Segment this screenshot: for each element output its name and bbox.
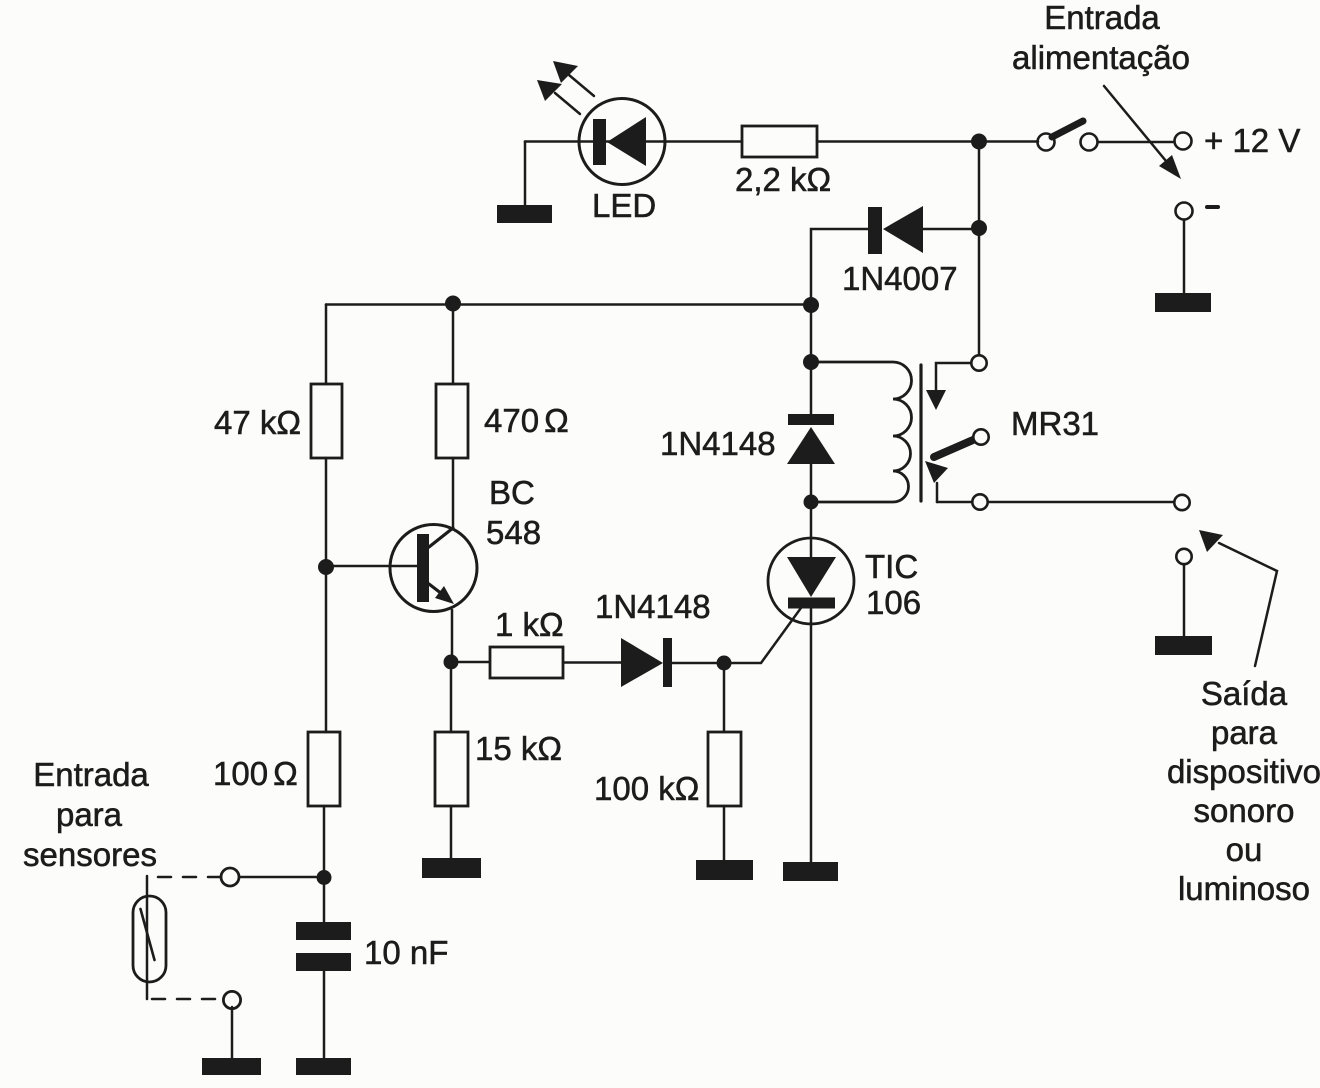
- LED light arrow 1: [553, 61, 594, 96]
- terminal output top: [1174, 495, 1189, 510]
- svg-text:alimentação: alimentação: [1012, 39, 1190, 76]
- svg-text:Entrada: Entrada: [1044, 0, 1160, 36]
- node emitter: [444, 655, 459, 670]
- label Entrada para sensores: [23, 756, 157, 873]
- terminal minus: [1176, 203, 1193, 220]
- relay contact common terminal: [971, 355, 986, 370]
- wire sensor terminal to ground: [231, 1007, 234, 1058]
- wire base node down: [325, 575, 328, 732]
- wire dashed sensor bottom: [152, 998, 222, 1001]
- node mid bus left: [445, 296, 461, 312]
- wire 470 branch down: [452, 311, 455, 384]
- node mid bus right: [803, 297, 819, 313]
- wire LED anode down: [524, 142, 527, 206]
- diode D4 1N4148 vertical: [787, 370, 835, 495]
- relay arm top arrow: [926, 363, 971, 410]
- ground minus: [1155, 293, 1211, 312]
- ground sensor: [202, 1058, 261, 1075]
- svg-text:1N4148: 1N4148: [660, 425, 776, 462]
- resistor R2 47 kΩ: [311, 384, 342, 458]
- relay K1 MR31 coil: [818, 362, 921, 502]
- node sensor: [317, 870, 332, 885]
- svg-text:MR31: MR31: [1011, 405, 1099, 442]
- svg-text:dispositivo: dispositivo: [1167, 753, 1320, 790]
- thyristor U1 TIC106: [768, 509, 854, 862]
- wire output to ground: [1183, 564, 1186, 636]
- node base: [318, 559, 334, 575]
- sensor element: [133, 876, 166, 999]
- svg-text:100Ω: 100Ω: [213, 755, 298, 792]
- svg-text:BC: BC: [489, 474, 535, 511]
- relay NC terminal: [972, 494, 987, 509]
- node gate: [717, 656, 732, 671]
- resistor R4 470 Ω: [436, 384, 468, 458]
- svg-text:para: para: [56, 796, 123, 833]
- svg-text:1N4148: 1N4148: [595, 588, 711, 625]
- svg-text:10 nF: 10 nF: [364, 934, 448, 971]
- node snubber top: [803, 354, 819, 370]
- ground LED: [497, 205, 552, 223]
- label minus: [1207, 205, 1218, 209]
- resistor R3 100 Ω: [308, 732, 340, 806]
- resistor R5 1 kΩ: [490, 647, 563, 678]
- annotation arrow output: [1199, 530, 1277, 666]
- ground cap: [296, 1058, 351, 1075]
- terminal output bottom: [1176, 549, 1191, 564]
- ground 100k: [696, 860, 753, 880]
- wire relay to output: [937, 501, 1174, 504]
- svg-text:ou: ou: [1226, 831, 1263, 868]
- diode D3 1N4148: [621, 638, 716, 687]
- svg-text:47 kΩ: 47 kΩ: [214, 404, 301, 441]
- svg-text:luminoso: luminoso: [1178, 870, 1310, 907]
- wire gate node to 100k: [723, 670, 726, 732]
- wire 100R to sensor node: [323, 806, 326, 870]
- transistor Q1 BC548: [334, 525, 477, 612]
- label Entrada alimentação: [1012, 0, 1190, 76]
- svg-text:15 kΩ: 15 kΩ: [475, 730, 562, 767]
- wire 1k to diode: [563, 661, 621, 664]
- node snubber bottom: [804, 495, 819, 510]
- svg-text:Saída: Saída: [1201, 675, 1288, 712]
- wire emitter to 15k: [450, 670, 453, 732]
- wire 470 to collector: [452, 458, 455, 527]
- svg-text:Entrada: Entrada: [33, 756, 149, 793]
- svg-text:+ 12 V: + 12 V: [1204, 122, 1300, 159]
- wire sensor node to cap: [323, 885, 326, 922]
- wire 1N4007 node down: [810, 298, 813, 354]
- resistor R6 15 kΩ: [435, 732, 468, 806]
- svg-text:sonoro: sonoro: [1194, 792, 1295, 829]
- svg-text:106: 106: [866, 584, 921, 621]
- wire 100k to ground: [723, 806, 726, 860]
- ground 15k: [422, 858, 481, 878]
- wire dashed sensor top: [152, 876, 221, 879]
- wire emitter node to 1k: [459, 661, 490, 664]
- diode D2 1N4007: [811, 206, 971, 298]
- relay blade: [925, 429, 989, 502]
- LED light arrow 2: [537, 80, 580, 114]
- terminal sensor bottom: [223, 991, 240, 1008]
- label BC 548: [486, 474, 541, 551]
- ground TIC106: [783, 862, 838, 881]
- resistor R7 100 kΩ: [708, 732, 741, 806]
- wire supply down: [978, 150, 981, 355]
- wire mid bus: [326, 303, 811, 306]
- node diode junction: [971, 220, 987, 236]
- terminal sensor top: [221, 868, 239, 886]
- wire 15k to ground: [450, 806, 453, 858]
- wire top bus LED to 2.2k: [525, 140, 971, 143]
- resistor R1 2,2 kΩ: [742, 126, 817, 157]
- svg-text:2,2 kΩ: 2,2 kΩ: [735, 161, 831, 198]
- label TIC 106: [865, 548, 921, 621]
- wire cap to ground: [323, 971, 326, 1058]
- terminal +12V: [1175, 133, 1192, 150]
- label Saída para dispositivo sonoro ou luminoso: [1167, 675, 1320, 907]
- svg-text:TIC: TIC: [865, 548, 918, 585]
- ground output: [1155, 636, 1212, 655]
- wire left branch down: [325, 305, 328, 385]
- svg-text:sensores: sensores: [23, 836, 157, 873]
- svg-text:LED: LED: [592, 187, 656, 224]
- svg-text:1N4007: 1N4007: [842, 260, 958, 297]
- annotation arrow to +12V: [1104, 86, 1181, 179]
- svg-text:100 kΩ: 100 kΩ: [594, 770, 699, 807]
- capacitor C1 10 nF: [296, 922, 351, 971]
- wire 47k to base node: [325, 458, 328, 559]
- wire minus to ground: [1183, 220, 1186, 293]
- svg-text:1 kΩ: 1 kΩ: [495, 606, 564, 643]
- node supply junction: [971, 134, 987, 150]
- switch S1: [987, 121, 1174, 151]
- wire gate: [731, 601, 806, 663]
- svg-text:para: para: [1211, 714, 1278, 751]
- wire sensor node to terminal: [240, 876, 316, 879]
- svg-text:470Ω: 470Ω: [484, 402, 569, 439]
- wire emitter down: [451, 610, 454, 655]
- LED D1: [579, 99, 665, 185]
- svg-text:548: 548: [486, 514, 541, 551]
